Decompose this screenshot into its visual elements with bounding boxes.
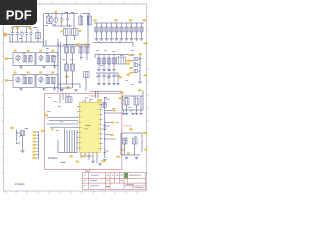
capacitor C2 bbox=[16, 27, 19, 43]
optocoupler U3 bbox=[65, 64, 69, 71]
red annotation near IC top bbox=[103, 103, 106, 106]
diode D3 bbox=[134, 64, 138, 67]
capacitor C17 bbox=[112, 73, 115, 83]
diode block D5 bbox=[35, 33, 40, 39]
wire M drops bbox=[121, 144, 140, 155]
title block date text bbox=[126, 183, 133, 186]
connector J3 pin 8 bbox=[33, 154, 36, 156]
wire rail M bbox=[121, 133, 142, 155]
bridge rectifier D1 bbox=[64, 29, 71, 36]
net label top-right 2 bbox=[114, 19, 117, 21]
svg-text:TP Guide: TP Guide bbox=[123, 126, 131, 128]
wire F bbox=[17, 129, 23, 150]
wire feeds above IC bbox=[60, 94, 69, 103]
transistor Q10 bbox=[141, 23, 143, 27]
capacitor C4 bbox=[60, 15, 63, 24]
capacitor C6 bbox=[79, 16, 83, 25]
capacitor C1 bbox=[11, 27, 14, 43]
wire K stubs bbox=[105, 99, 122, 151]
transistor Q6 bbox=[121, 23, 123, 27]
capacitor C15 bbox=[102, 73, 105, 83]
power arrow E1 bbox=[54, 83, 56, 90]
ground L3 bbox=[131, 113, 134, 115]
transistor Q50 bbox=[20, 131, 24, 136]
title block red sheet number bbox=[106, 185, 110, 188]
driver cell Q22 bbox=[13, 74, 35, 87]
wire mid verticals bbox=[67, 53, 88, 64]
net label B2 bbox=[60, 21, 63, 23]
connector J3 pin 1 bbox=[33, 131, 36, 133]
IC U1 right pins bbox=[100, 105, 102, 149]
resistor network RN1 bbox=[66, 97, 73, 103]
wire red box to title area bbox=[86, 170, 90, 173]
junction node RC2 bbox=[139, 64, 140, 65]
wire horizontal bundle into IC bbox=[47, 117, 79, 127]
pin net label RC2 bbox=[129, 60, 132, 62]
connector J3 body bbox=[38, 131, 40, 159]
IC U1 part label bbox=[85, 124, 91, 127]
transistor pair Q30 bbox=[65, 47, 69, 53]
connector J3 pin 7 bbox=[33, 151, 36, 153]
title block grid bbox=[82, 173, 146, 190]
ground M1 bbox=[125, 157, 128, 159]
net label D3 bbox=[119, 76, 122, 78]
wire RC stubs bbox=[132, 55, 134, 73]
IC U1 top pins bbox=[86, 99, 91, 102]
varistor RV1 bbox=[54, 18, 59, 23]
cell top net label E1a bbox=[14, 72, 17, 74]
ground mid bbox=[60, 89, 63, 91]
wire diode links bbox=[138, 59, 140, 71]
wire L drops bbox=[122, 96, 143, 113]
transistor Q9 bbox=[136, 23, 138, 27]
optocoupler U4 bbox=[71, 64, 75, 71]
net label L2 bbox=[138, 89, 141, 91]
pin net label E0 bbox=[5, 58, 9, 60]
wire sub rail right bbox=[93, 41, 133, 47]
net label ladder top bbox=[41, 130, 44, 132]
capacitor C3c bbox=[29, 28, 32, 42]
transistor pair Q31 bbox=[71, 47, 75, 53]
net label top-right 4 bbox=[143, 19, 146, 21]
wire bottom collector bbox=[58, 140, 78, 152]
net label RC5 bbox=[144, 74, 147, 76]
junction node RC bbox=[139, 58, 140, 59]
resistor R10 bbox=[102, 103, 107, 107]
net label K3 bbox=[117, 156, 120, 158]
net label M4 bbox=[66, 86, 69, 88]
wire vertical bus mid bbox=[58, 42, 61, 92]
net label M5 bbox=[129, 128, 132, 130]
wire K main vertical bbox=[104, 97, 106, 158]
capacitor C7 bbox=[87, 16, 91, 25]
ground mid 2 bbox=[74, 90, 77, 92]
junction node K1 bbox=[104, 112, 105, 113]
PDF badge bbox=[0, 0, 37, 25]
net label A3 bbox=[28, 27, 31, 29]
capacitor C11 bbox=[103, 55, 105, 59]
transistor Q40 bbox=[124, 98, 129, 105]
net label IC top right bbox=[97, 99, 102, 101]
diode D2 bbox=[134, 58, 138, 61]
net label K2c bbox=[119, 97, 122, 99]
transistor Q43 bbox=[133, 138, 138, 144]
wire rail D bbox=[95, 55, 134, 59]
net label M1 bbox=[76, 43, 79, 45]
transistor Q7 bbox=[126, 23, 128, 27]
IC U1 left pins bbox=[77, 107, 79, 149]
IC U1 main controller bbox=[80, 102, 101, 152]
capacitor C12 bbox=[108, 55, 110, 59]
connector J2 bbox=[117, 57, 126, 64]
pin net label RC3 bbox=[129, 67, 132, 69]
connector J3 pin 5 bbox=[33, 144, 36, 146]
driver cell Q23 bbox=[36, 74, 58, 87]
ground L4 bbox=[135, 113, 138, 115]
capacitor C14 bbox=[97, 73, 100, 83]
transformer T1 bbox=[47, 16, 53, 24]
transistor Q5 bbox=[116, 23, 118, 27]
net label D2 bbox=[126, 63, 129, 65]
driver cell Q21 bbox=[36, 53, 58, 66]
relay K1 bbox=[72, 29, 79, 36]
ground L5 bbox=[139, 113, 142, 115]
capacitor C3b bbox=[25, 27, 28, 43]
wire top-left stub bbox=[13, 26, 32, 28]
net label B4 bbox=[79, 30, 82, 32]
transistor Q3 bbox=[106, 23, 108, 27]
title block small text right bbox=[129, 174, 141, 177]
cell top net label E0c bbox=[39, 50, 42, 52]
net label B3 bbox=[60, 31, 63, 33]
highlight box DP board section bbox=[45, 93, 122, 169]
sheet border frame bbox=[4, 4, 147, 191]
sheet border tick marks left bbox=[1, 17, 3, 173]
capacitor C16 bbox=[107, 73, 110, 83]
wire right column bbox=[139, 56, 141, 81]
regulator U5 bbox=[84, 72, 90, 78]
connector J3 pin 9 bbox=[33, 157, 36, 159]
ground under IC bbox=[91, 161, 95, 163]
power arrow E0 bbox=[54, 62, 56, 69]
net label F1 bbox=[10, 127, 13, 129]
net label K1 bbox=[113, 109, 116, 111]
junction node K2 bbox=[104, 123, 105, 124]
cell top net label E1c bbox=[39, 72, 42, 74]
capacitor C20 bbox=[103, 128, 106, 129]
IC U1 pin number marks bbox=[80, 105, 100, 149]
ground M2 bbox=[135, 157, 138, 159]
title block green cell bbox=[124, 173, 127, 179]
connector J3 pin 4 bbox=[33, 141, 36, 143]
title block row2 text bbox=[84, 179, 86, 182]
cell top net label E1b bbox=[27, 72, 30, 74]
ground F bbox=[21, 151, 25, 153]
wire lower rail bbox=[42, 36, 90, 47]
wire cap stubs bbox=[81, 14, 90, 17]
sheet border tick marks right bbox=[147, 17, 149, 173]
ground L1 bbox=[122, 113, 125, 115]
net label L1 bbox=[120, 92, 123, 94]
net label top-right 1 bbox=[93, 19, 96, 21]
net label M3 bbox=[65, 76, 68, 78]
net label K6 bbox=[102, 160, 106, 162]
svg-text:7x Bottom: 7x Bottom bbox=[89, 95, 98, 98]
transistor Q2 bbox=[101, 23, 103, 27]
capacitor C5 bbox=[66, 15, 69, 24]
net label R column top bbox=[139, 53, 142, 55]
cell top net label E0d bbox=[51, 50, 54, 52]
pin net label RC4 bbox=[130, 72, 133, 74]
pin net label RC1 bbox=[129, 54, 132, 56]
capacitor C13 bbox=[113, 55, 115, 59]
wire bottom rail top-left bbox=[7, 35, 44, 42]
net label D6 bbox=[143, 42, 146, 44]
red annotation near IC bottom bbox=[103, 151, 106, 154]
net label J3 bbox=[81, 155, 86, 157]
wire rail D2 bbox=[96, 72, 118, 74]
ground right column bbox=[138, 82, 142, 84]
net label K2 bbox=[111, 122, 114, 124]
net label J1 bbox=[70, 155, 73, 157]
transistor Q8 bbox=[131, 23, 133, 27]
off-page connector P1 bbox=[4, 33, 8, 36]
wire top-right rail bbox=[94, 22, 144, 24]
net label I2 bbox=[51, 128, 54, 130]
capacitor C18 bbox=[116, 73, 119, 83]
transistor pair Q32 bbox=[79, 47, 83, 53]
wire mid rail B bbox=[52, 24, 72, 27]
ground under IC 2 bbox=[98, 164, 102, 166]
wire rail mid bbox=[63, 44, 90, 46]
wire top rail bbox=[44, 14, 91, 47]
ground K bbox=[103, 160, 106, 162]
sheet border tick marks bottom bbox=[6, 191, 137, 194]
wire rail L bbox=[122, 91, 143, 111]
net label B1 bbox=[54, 11, 57, 13]
title block header text bbox=[84, 174, 86, 177]
net label top-right 3 bbox=[129, 19, 132, 21]
cell top net label E0a bbox=[14, 50, 17, 52]
net label A1 bbox=[11, 27, 14, 29]
capacitor C10 bbox=[98, 55, 100, 59]
svg-text:Int Board: Int Board bbox=[15, 183, 25, 186]
connector J3 pin 2 bbox=[33, 134, 36, 136]
scatter micro text bbox=[46, 47, 49, 50]
transistor Q42 bbox=[123, 138, 128, 144]
sheet border tick marks top bbox=[16, 2, 136, 4]
net label M7 bbox=[144, 149, 147, 151]
transistor Q4 bbox=[111, 23, 113, 27]
net label K4 bbox=[121, 149, 124, 151]
wire vertical bundle under bbox=[65, 129, 78, 153]
junction node B bbox=[69, 25, 70, 26]
net label D4 bbox=[127, 74, 130, 76]
svg-text:I/P Board: I/P Board bbox=[48, 157, 58, 160]
capacitor C3 polarized bbox=[21, 31, 23, 43]
junction F bbox=[16, 142, 17, 143]
junction node K3 bbox=[104, 138, 105, 139]
net label J2 bbox=[76, 161, 79, 163]
wire bottom rail D bbox=[90, 91, 122, 98]
transistor Q1 bbox=[96, 23, 98, 27]
wire under IC bbox=[81, 153, 97, 163]
connector J3 pin 6 bbox=[33, 147, 36, 149]
svg-text:PDF: PDF bbox=[6, 7, 32, 22]
net label K5 bbox=[127, 152, 130, 154]
transistor Q41 bbox=[134, 98, 139, 105]
ground L2 bbox=[125, 113, 128, 115]
net label K2b bbox=[110, 134, 113, 136]
pin net label E1 bbox=[5, 79, 9, 81]
net label A2 bbox=[16, 27, 19, 29]
transistor pair Q33 bbox=[85, 47, 89, 53]
connector J3 pin 3 bbox=[33, 138, 36, 140]
label small under IC bbox=[61, 161, 66, 164]
cell top net label E0b bbox=[27, 50, 30, 52]
diode D4 bbox=[134, 70, 138, 73]
title block row3 text bbox=[84, 185, 86, 188]
net label M2 bbox=[83, 43, 86, 45]
net label M6 bbox=[143, 132, 146, 134]
wire mid lower bbox=[58, 71, 86, 91]
driver cell Q20 bbox=[13, 53, 35, 66]
net label D1 bbox=[126, 60, 129, 62]
cell top net label E1d bbox=[51, 72, 54, 74]
net label I1 bbox=[45, 114, 48, 116]
